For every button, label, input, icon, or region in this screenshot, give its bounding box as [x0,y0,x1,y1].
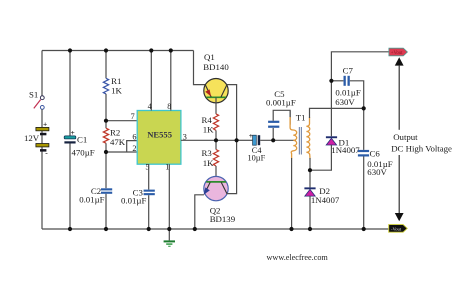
ground [164,229,175,247]
svg-text:NE555: NE555 [147,129,172,139]
wire Q2 collector [227,140,237,193]
svg-text:R1: R1 [111,76,121,86]
wire C5 top to T1 primary top [273,110,290,124]
wire C4 to T1 tap [260,139,296,141]
svg-text:T1: T1 [296,112,306,122]
terminal -Vout [389,225,408,233]
capacitor C5 0.001uF [266,89,296,128]
node D1 D2 secondary bottom [308,168,312,172]
capacitor C2 0.01uF [79,186,112,204]
switch S1 [29,90,44,110]
svg-text:Q1: Q1 [204,52,215,62]
pin number labels [131,102,187,171]
node R1 R2 pin7 [104,119,108,123]
output span arrow [395,57,404,221]
wire pin 4 [150,51,152,111]
capacitor C4 10uF [248,131,266,163]
wire C1 column lower [69,144,71,230]
svg-text:630V: 630V [367,167,387,177]
node rail pin1 ground [167,227,171,231]
node rail T1 primary [289,227,293,231]
node C5 bottom [271,138,275,142]
wire node to C4 [237,139,253,141]
wire C5 lower lead [272,128,274,140]
svg-text:+Vout: +Vout [391,51,403,56]
wire C6 lower lead [363,157,365,230]
resistor R1 1K [103,76,122,96]
node rail C1 [68,227,72,231]
svg-text:1K: 1K [203,125,214,135]
node top rail R1 [104,48,108,52]
wire bottom rail [42,228,389,230]
svg-text:C7: C7 [343,66,354,76]
svg-text:BD140: BD140 [203,62,229,72]
wire Q1 emitter [194,51,207,85]
site caption [267,253,329,262]
svg-text:1N4007: 1N4007 [331,145,360,155]
wire D2 to rail [309,196,311,229]
wire C1 column upper [69,51,71,136]
svg-text:1K: 1K [203,158,214,168]
svg-text:1N4007: 1N4007 [311,195,340,205]
wire C6 upper lead [363,108,365,149]
diode D1 1N4007 [326,136,360,155]
capacitor C6 0.01uF 630V [358,149,393,178]
svg-text:6: 6 [132,132,136,141]
svg-text:R2: R2 [110,128,120,138]
battery B1 12V [24,120,49,158]
wire battery column lower [41,109,43,229]
svg-text:470µF: 470µF [72,147,95,157]
wire pin 5 upper [148,164,150,189]
svg-text:-: - [45,148,48,157]
svg-text:DC High Voltage: DC High Voltage [391,144,452,154]
wire D1 anode to secondary bottom node [310,145,331,170]
terminal +Vout [389,48,408,56]
transformer T1 primary winding [290,110,305,158]
svg-text:-Vout: -Vout [391,227,402,232]
svg-text:0.01µF: 0.01µF [121,196,146,206]
svg-text:2: 2 [132,144,136,153]
wire +Vout rail [331,52,389,81]
svg-text:12V: 12V [24,133,40,143]
node rail C6 [362,227,366,231]
node R4 R3 pin3 [214,138,218,142]
transistor Q2 BD139 [204,176,236,224]
svg-text:630V: 630V [335,97,355,107]
wire Q1 collector [227,85,237,141]
wire pin 8 [170,51,172,111]
wire R2 to C2 [105,143,107,188]
node rail Q2 emitter [193,227,197,231]
resistor R2 47K [103,128,125,148]
wire R3 to Q2 base [215,166,217,182]
wire pin 7 [106,120,137,122]
svg-text:4: 4 [148,102,152,111]
node collectors [235,138,239,142]
wire +12V top rail [42,50,194,52]
svg-text:8: 8 [167,102,171,111]
wire C2 to rail [105,194,107,229]
diode D2 1N4007 [304,186,339,205]
wire R1 to R2 [105,94,107,128]
node R2 pin2 [104,150,108,154]
wire C7 right lead [350,81,364,109]
svg-text:47K: 47K [110,137,126,147]
wire T1 primary bottom to rail [291,158,293,229]
transistor Q1 BD140 [203,52,229,103]
wire R4 to R3 [215,130,217,149]
svg-text:R4: R4 [202,115,213,125]
node rail C2 [104,227,108,231]
capacitor C7 0.01uF 630V [335,66,361,108]
wire T1 secondary top [310,108,364,118]
node C7 left [329,79,333,83]
svg-text:C6: C6 [370,149,381,159]
wire pin 3 [181,139,237,141]
svg-text:www.elecfree.com: www.elecfree.com [267,253,329,262]
wire Q2 emitter [195,195,204,229]
node rail C3 [147,227,151,231]
wire pin 1 [168,164,170,229]
op-amp U1 NE555 body [137,111,181,165]
svg-text:0.001µF: 0.001µF [266,98,296,108]
node secondary top C6 [362,106,366,110]
wire D1 column [330,81,332,137]
node top rail C1 [68,48,72,52]
svg-text:Output: Output [393,132,418,142]
svg-text:S1: S1 [29,90,38,100]
wire pin 5 lower [148,195,150,229]
wire T1 secondary bottom [309,158,311,187]
transformer T1 core [299,127,301,155]
wire Q1 base to R4 [215,97,217,114]
node top rail pin8 [169,48,173,52]
resistor R4 1K [202,114,219,135]
wire R1 column top [105,51,107,79]
transformer T1 secondary winding [306,117,310,159]
svg-text:0.01µF: 0.01µF [335,88,360,98]
svg-text:10µF: 10µF [248,154,266,163]
node rail D2 [308,227,312,231]
svg-text:R3: R3 [202,148,213,158]
svg-text:1K: 1K [111,86,122,96]
svg-text:0.01µF: 0.01µF [79,194,104,204]
wire battery column upper [41,51,43,96]
svg-text:7: 7 [131,112,135,121]
node top rail pin4 [149,48,153,52]
capacitor C1 470uF [64,128,95,157]
wire C7 left lead [331,80,343,82]
capacitor C3 0.01uF [121,187,155,205]
svg-text:BD139: BD139 [210,214,236,224]
output label [391,132,452,154]
svg-text:C1: C1 [77,135,87,145]
resistor R3 1K [202,148,219,168]
wire pins 2-6 tie [106,141,137,152]
